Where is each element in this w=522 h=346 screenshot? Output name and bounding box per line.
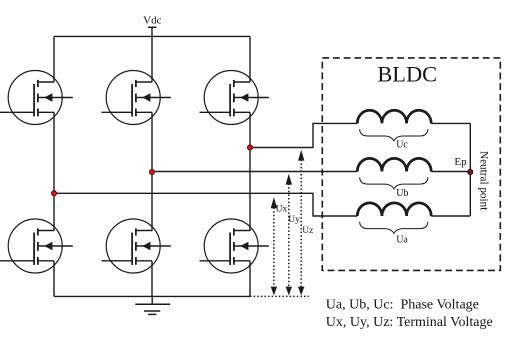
wire leg C lower (Q6 source to bottom rail): [249, 261, 251, 297]
transistor Q4: [0, 219, 73, 273]
terminal voltage arrow Ux: [271, 197, 277, 295]
wire leg B middle (Q2 source to Q5 drain): [151, 112, 153, 231]
svg-text:Uy: Uy: [288, 215, 300, 225]
inductor winding phase B (Ub): [357, 158, 431, 171]
svg-text:Ep: Ep: [454, 156, 467, 168]
wire phase C to winding Uc: [250, 123, 357, 147]
node phase A junction: [51, 191, 56, 196]
wire neutral bus: [469, 123, 471, 216]
svg-text:Ux: Ux: [276, 204, 288, 214]
BLDC motor dashed box: [322, 58, 500, 271]
wire leg A lower (Q4 source to bottom rail): [53, 261, 55, 297]
wire bottom rail: [54, 295, 250, 297]
wire leg B lower (Q5 source to bottom rail): [151, 261, 153, 297]
svg-text:Ua: Ua: [396, 234, 408, 245]
node phase B junction: [149, 169, 154, 174]
wire leg A drain (rail to Q1): [53, 36, 55, 82]
ground: [135, 296, 170, 314]
svg-text:Uz: Uz: [302, 226, 313, 236]
wire Uc to neutral bus: [431, 122, 470, 124]
transistor Q6: [200, 219, 269, 273]
brace under Ua: [360, 222, 428, 234]
svg-text:Neutral point: Neutral point: [478, 151, 490, 211]
inductor winding phase C (Uc): [357, 110, 431, 123]
svg-text:Ub: Ub: [396, 188, 408, 199]
wire top rail: [54, 35, 250, 37]
wire leg C middle (Q3 source to Q6 drain): [249, 112, 251, 231]
transistor Q3: [200, 71, 269, 125]
wire phase A to winding Ua: [54, 193, 357, 216]
brace under Uc: [360, 129, 428, 141]
brace under Ub: [360, 177, 428, 189]
svg-text:Ux, Uy, Uz: Terminal Voltage: Ux, Uy, Uz: Terminal Voltage: [326, 315, 493, 330]
transistor Q5: [102, 219, 171, 273]
svg-text:Vdc: Vdc: [143, 15, 161, 27]
wire phase B to winding Ub: [152, 171, 357, 173]
terminal voltage arrow Uz: [298, 150, 304, 296]
node phase C junction: [247, 145, 252, 150]
svg-text:Uc: Uc: [396, 139, 408, 150]
wire bottom rail dotted extension: [250, 295, 309, 297]
wire top Vdc supply bar: [148, 26, 157, 28]
transistor Q1: [0, 71, 73, 125]
terminal voltage arrow Uy: [286, 174, 292, 296]
svg-text:BLDC: BLDC: [377, 62, 437, 87]
wire Ub to neutral bus: [431, 171, 470, 173]
transistor Q2: [102, 71, 171, 125]
inductor winding phase A (Ua): [357, 203, 431, 216]
wire Ua to neutral bus: [431, 215, 470, 217]
wire leg A middle (Q1 source to Q4 drain): [53, 112, 55, 231]
node neutral point: [468, 169, 473, 174]
wire Vdc stem to Q2 drain: [151, 27, 153, 82]
wire leg C drain (rail to Q3): [249, 36, 251, 82]
svg-text:Ua, Ub, Uc: Phase Voltage: Ua, Ub, Uc: Phase Voltage: [326, 298, 479, 313]
